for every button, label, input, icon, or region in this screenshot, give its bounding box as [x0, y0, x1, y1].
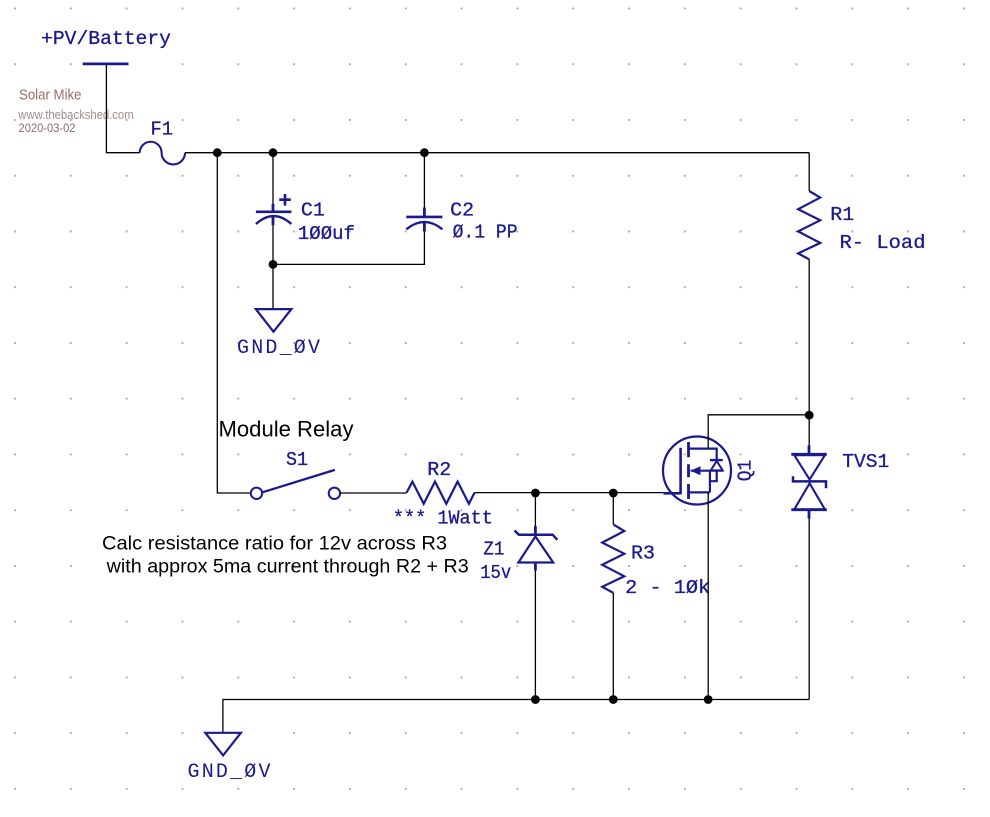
- junction top rail / C2: [420, 148, 429, 157]
- junction TVS node: [805, 411, 814, 420]
- resistor R3: [602, 524, 624, 592]
- wire R1 top lead: [808, 153, 810, 191]
- svg-text:15v: 15v: [480, 562, 511, 584]
- junction bottom rail / Z1: [531, 695, 540, 704]
- wire down to ground: [272, 264, 274, 309]
- wire Q1 source down: [707, 492, 709, 699]
- wire R3 top lead: [612, 493, 614, 524]
- wire Z1 top lead: [534, 493, 536, 527]
- fuse F1: [140, 142, 185, 165]
- svg-text:R- Load: R- Load: [840, 232, 926, 254]
- svg-text:Ø.1 PP: Ø.1 PP: [453, 222, 518, 244]
- wire C1 top lead: [272, 153, 274, 205]
- svg-text:with approx 5ma current throug: with approx 5ma current through R2 + R3: [106, 556, 469, 577]
- junction bottom rail / R3: [609, 695, 618, 704]
- wire C1 bottom lead: [272, 225, 274, 264]
- svg-text:C2: C2: [450, 199, 474, 221]
- ground GND_0V (bottom): [205, 733, 241, 756]
- svg-text:TVS1: TVS1: [842, 451, 889, 473]
- svg-text:1ØØuf: 1ØØuf: [298, 223, 355, 245]
- resistor R1: [798, 191, 820, 259]
- svg-text:+PV/Battery: +PV/Battery: [41, 28, 171, 50]
- zener diode Z1: [515, 526, 558, 570]
- svg-text:Z1: Z1: [483, 539, 504, 561]
- wire R1 bottom to TVS: [808, 259, 810, 446]
- svg-text:R2: R2: [427, 459, 451, 481]
- wire R3 bottom lead: [612, 593, 614, 700]
- wire switch branch: [217, 153, 251, 493]
- wire switch to R2: [340, 492, 407, 494]
- junction top rail / switch branch: [213, 148, 222, 157]
- resistor R2: [407, 482, 475, 504]
- capacitor C2: [406, 208, 442, 232]
- junction Z1 node: [531, 489, 540, 498]
- svg-text:www.thebackshed.com: www.thebackshed.com: [17, 108, 133, 122]
- ground GND_0V (top): [256, 309, 292, 332]
- wire top rail: [185, 152, 809, 154]
- svg-text:Q1: Q1: [735, 460, 757, 482]
- wire Z1 bottom lead: [534, 571, 536, 700]
- wire R2 to gate: [475, 492, 664, 494]
- power terminal bar +PV/Battery: [83, 63, 129, 66]
- svg-text:R3: R3: [631, 543, 655, 565]
- wire bottom rail: [223, 700, 809, 733]
- svg-text:*** 1Watt: *** 1Watt: [393, 508, 493, 530]
- svg-text:R1: R1: [830, 204, 854, 226]
- svg-text:2020-03-02: 2020-03-02: [19, 121, 76, 135]
- wire battery drop: [106, 65, 139, 153]
- junction R3 node: [609, 489, 618, 498]
- TVS diode TVS1: [791, 445, 827, 518]
- svg-text:Solar Mike: Solar Mike: [19, 88, 82, 104]
- junction bottom rail / Q1 source: [704, 695, 713, 704]
- svg-text:C1: C1: [301, 199, 325, 221]
- svg-text:F1: F1: [151, 119, 174, 141]
- svg-text:Calc resistance ratio for 12v: Calc resistance ratio for 12v across R3: [102, 534, 447, 555]
- svg-text:S1: S1: [286, 449, 308, 471]
- junction C1/C2 bottom node: [269, 260, 278, 269]
- svg-text:2 - 1Øk: 2 - 1Øk: [625, 577, 710, 599]
- wire C2 bottom to C1 node: [273, 232, 424, 265]
- wire C2 top lead: [423, 153, 425, 208]
- junction top rail / C1: [269, 148, 278, 157]
- wire Q1 drain to TVS node: [708, 415, 809, 449]
- wire TVS bottom: [808, 519, 810, 700]
- transistor Q1 (N-MOSFET): [663, 437, 731, 505]
- switch S1: [251, 470, 340, 499]
- svg-text:Module Relay: Module Relay: [219, 417, 354, 442]
- capacitor C1: [256, 194, 292, 225]
